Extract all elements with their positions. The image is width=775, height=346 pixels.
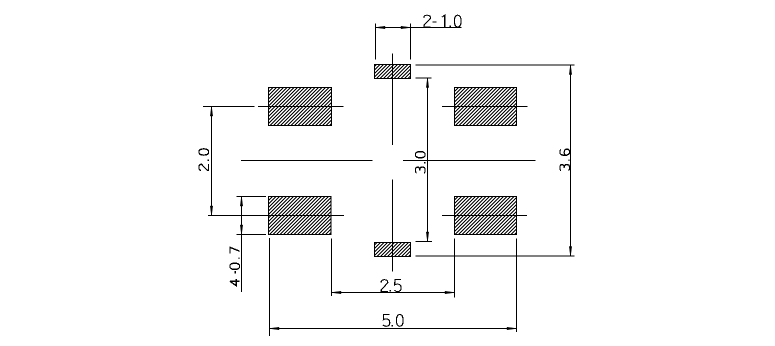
dimension text 2-1.0 — [424, 15, 461, 27]
dimension 4-0.7 arrow down — [240, 225, 242, 235]
dimension 2.0 arrow up — [210, 107, 212, 117]
pad P3 bottom-left (hatched) — [269, 197, 332, 235]
dimension text 2.5 — [381, 280, 401, 292]
dimension 3.6 dimension line — [570, 65, 572, 256]
dimension 5.0 extension line left — [269, 238, 271, 336]
dimension 3.0 extension line bottom — [416, 241, 433, 243]
dimension 3.6 extension line bottom — [416, 255, 575, 257]
dimension text 4-0.7 (rotated) — [230, 247, 240, 286]
dimension 2-1.0 extension line right — [410, 24, 412, 60]
dimension 2-1.0 arrow left — [376, 26, 386, 28]
dimension 2.0 arrow down — [210, 206, 212, 216]
center line of pad P3 — [208, 215, 344, 217]
dimension 3.6 arrow up — [569, 65, 571, 75]
dimension 2-1.0 arrow right — [401, 26, 411, 28]
dimension text 3.6 (rotated) — [560, 149, 570, 170]
dimension 2.0 dimension line — [211, 107, 213, 216]
horizontal center line left segment — [241, 160, 373, 162]
dimension 3.0 arrow up — [426, 78, 428, 88]
dimension 3.0 arrow down — [426, 232, 428, 242]
pad P5 small top-center (hatched) — [375, 65, 411, 79]
dimension 5.0 arrow right — [507, 327, 517, 329]
center line of pad P4 — [442, 215, 527, 217]
center line of pad P2 — [442, 106, 528, 108]
dimension 2-1.0 extension line left — [375, 24, 377, 60]
dimension 3.0 extension line top — [416, 77, 432, 79]
pad P4 bottom-right (hatched) — [455, 197, 517, 235]
dimension 5.0 extension line right — [516, 239, 518, 333]
dimension 5.0 dimension line — [270, 328, 517, 330]
dimension 3.6 extension line top — [416, 64, 575, 66]
pad P6 small bottom-center (hatched) — [375, 243, 411, 257]
dimension 2.5 dimension line — [332, 292, 455, 294]
dimension 2.5 arrow left — [332, 291, 342, 293]
dimension text 3.0 (rotated) — [415, 152, 425, 173]
pad P1 top-left (hatched) — [269, 88, 332, 126]
dimension 2.5 extension line left — [331, 239, 333, 297]
dimension 3.0 dimension line — [427, 78, 429, 242]
vertical center line top segment — [392, 54, 394, 146]
dimension 4-0.7 arrow up — [240, 197, 242, 207]
dimension text 2.0 (rotated) — [199, 149, 209, 171]
dimension 4-0.7 extension line bottom — [237, 234, 267, 236]
dimension 2.5 extension line right — [454, 239, 456, 298]
horizontal center line right segment — [403, 160, 536, 162]
dimension text 5.0 — [383, 315, 403, 327]
dimension 4-0.7 dimension line — [241, 197, 243, 293]
center line of pad P1 — [203, 106, 344, 108]
dimension 2-1.0 dimension line — [376, 27, 462, 29]
vertical center line bottom segment — [392, 180, 394, 272]
dimension 3.6 arrow down — [569, 247, 571, 257]
dimension 2.5 arrow right — [445, 291, 455, 293]
dimension 5.0 arrow left — [270, 327, 280, 329]
dimension 4-0.7 extension line top — [237, 196, 267, 198]
pad P2 top-right (hatched) — [455, 88, 517, 126]
